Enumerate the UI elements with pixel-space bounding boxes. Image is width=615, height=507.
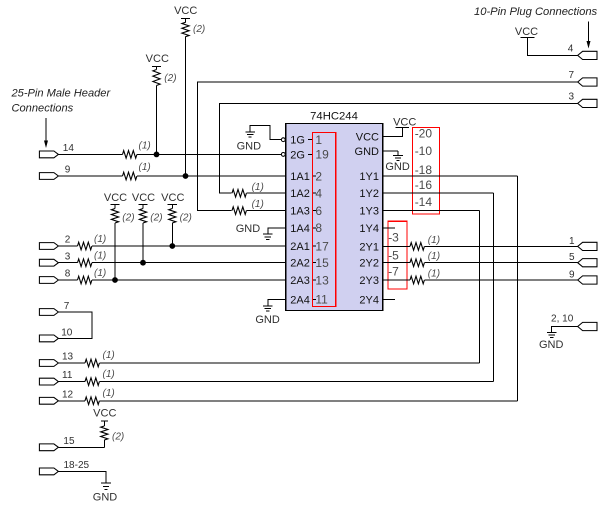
svg-text:1A4: 1A4: [290, 223, 310, 235]
svg-text:(2): (2): [180, 213, 192, 224]
svg-text:(1): (1): [103, 388, 115, 399]
svg-text:17: 17: [315, 239, 329, 253]
svg-text:2, 10: 2, 10: [551, 314, 574, 325]
svg-text:(1): (1): [139, 141, 151, 152]
svg-text:VCC: VCC: [93, 408, 116, 420]
svg-text:-16: -16: [415, 178, 433, 192]
svg-text:8: 8: [315, 221, 322, 235]
svg-text:(1): (1): [94, 251, 106, 262]
svg-text:-18: -18: [415, 163, 433, 177]
svg-text:2: 2: [65, 235, 71, 246]
svg-text:(1): (1): [103, 350, 115, 361]
svg-text:VCC: VCC: [174, 5, 197, 17]
svg-text:11: 11: [315, 293, 328, 307]
svg-text:1: 1: [315, 133, 322, 147]
svg-text:(2): (2): [122, 213, 134, 224]
svg-text:2Y2: 2Y2: [359, 258, 379, 270]
svg-text:2A1: 2A1: [290, 241, 310, 253]
svg-text:9: 9: [569, 270, 575, 281]
svg-text:2A4: 2A4: [290, 294, 310, 306]
svg-text:(2): (2): [112, 431, 124, 442]
svg-text:15: 15: [315, 256, 329, 270]
svg-text:VCC: VCC: [161, 192, 184, 204]
svg-text:2Y4: 2Y4: [359, 294, 379, 306]
svg-text:GND: GND: [355, 146, 380, 158]
svg-text:10-Pin Plug Connections: 10-Pin Plug Connections: [474, 6, 598, 18]
svg-text:14: 14: [63, 143, 75, 154]
svg-text:VCC: VCC: [146, 53, 169, 65]
svg-text:1Y4: 1Y4: [359, 223, 379, 235]
svg-text:GND: GND: [539, 339, 564, 351]
svg-text:18-25: 18-25: [64, 460, 90, 471]
svg-text:4: 4: [568, 44, 574, 55]
svg-text:(1): (1): [94, 234, 106, 245]
svg-text:1: 1: [569, 236, 575, 247]
svg-text:-10: -10: [415, 144, 433, 158]
svg-text:8: 8: [65, 269, 71, 280]
svg-text:13: 13: [62, 352, 74, 363]
svg-text:GND: GND: [237, 140, 262, 152]
svg-text:-5: -5: [388, 249, 399, 263]
svg-text:2G: 2G: [290, 149, 305, 161]
svg-text:Connections: Connections: [12, 103, 74, 115]
svg-text:(1): (1): [252, 182, 264, 193]
svg-text:(2): (2): [193, 24, 205, 35]
svg-text:(2): (2): [150, 213, 162, 224]
svg-text:10: 10: [61, 327, 73, 338]
svg-text:-3: -3: [388, 230, 399, 244]
svg-text:12: 12: [62, 389, 74, 400]
svg-text:4: 4: [315, 187, 322, 201]
svg-text:1Y3: 1Y3: [359, 206, 379, 218]
svg-text:2A2: 2A2: [290, 258, 310, 270]
svg-text:11: 11: [62, 370, 73, 381]
svg-text:15: 15: [63, 436, 75, 447]
svg-text:VCC: VCC: [132, 192, 155, 204]
svg-text:6: 6: [315, 204, 322, 218]
svg-text:1Y2: 1Y2: [359, 188, 379, 200]
svg-text:19: 19: [315, 148, 329, 162]
svg-text:2Y1: 2Y1: [359, 241, 379, 253]
svg-text:13: 13: [315, 273, 329, 287]
svg-text:(1): (1): [252, 199, 264, 210]
svg-text:1Y1: 1Y1: [359, 171, 379, 183]
svg-text:(1): (1): [428, 251, 440, 262]
svg-text:2A3: 2A3: [290, 275, 310, 287]
svg-text:(1): (1): [428, 235, 440, 246]
svg-text:-14: -14: [415, 195, 433, 209]
svg-text:(1): (1): [428, 268, 440, 279]
svg-text:25-Pin Male Header: 25-Pin Male Header: [11, 88, 112, 100]
svg-text:1G: 1G: [290, 135, 305, 147]
svg-text:VCC: VCC: [356, 132, 379, 144]
svg-text:VCC: VCC: [393, 117, 416, 129]
svg-text:(1): (1): [139, 162, 151, 173]
svg-text:VCC: VCC: [515, 26, 538, 38]
svg-text:(1): (1): [94, 268, 106, 279]
svg-text:GND: GND: [236, 223, 261, 235]
svg-text:GND: GND: [255, 314, 280, 326]
svg-text:2Y3: 2Y3: [359, 275, 379, 287]
svg-text:VCC: VCC: [104, 192, 127, 204]
svg-text:1A3: 1A3: [290, 206, 310, 218]
svg-text:GND: GND: [93, 491, 118, 503]
svg-text:3: 3: [65, 251, 71, 262]
svg-text:-20: -20: [415, 127, 433, 141]
svg-text:3: 3: [568, 92, 574, 103]
svg-text:5: 5: [569, 252, 575, 263]
svg-text:-7: -7: [388, 265, 399, 279]
svg-text:1A1: 1A1: [290, 171, 310, 183]
svg-text:GND: GND: [385, 161, 410, 173]
svg-text:(1): (1): [103, 369, 115, 380]
svg-text:2: 2: [315, 169, 322, 183]
svg-text:74HC244: 74HC244: [310, 110, 358, 122]
svg-text:7: 7: [64, 301, 70, 312]
svg-text:9: 9: [65, 165, 71, 176]
svg-text:(2): (2): [164, 73, 176, 84]
svg-text:7: 7: [568, 70, 574, 81]
svg-text:1A2: 1A2: [290, 188, 310, 200]
